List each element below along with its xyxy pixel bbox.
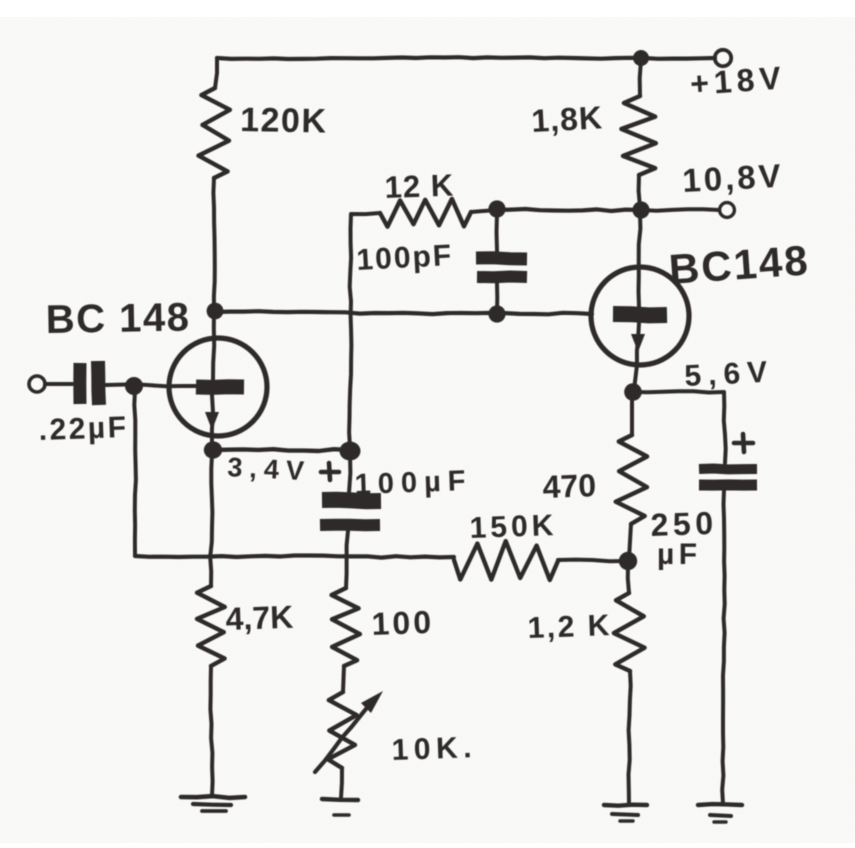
svg-text:12 K: 12 K [384, 168, 455, 205]
node Q1 collector / base-line junction [207, 303, 224, 320]
resistor R7 1.2K [614, 593, 645, 671]
node Q2 emitter (5.6V) [624, 383, 642, 401]
node 3.4V / 12K / 100uF junction [340, 442, 361, 461]
wire 120K to Q1 collector node [213, 178, 214, 311]
resistor R4 470 [616, 435, 647, 524]
resistor R2 4.7K [197, 586, 225, 666]
wire 100pF top stem [495, 213, 500, 251]
capacitor C4 100pF bottom plate [477, 271, 527, 284]
potentiometer VR1 wiper arrow [315, 691, 383, 772]
svg-text:1,8K: 1,8K [530, 99, 603, 139]
wire node to 1.2K [628, 564, 629, 593]
wire 3.4V node to 100uF [349, 453, 350, 493]
transistor Q1 collector lead [213, 311, 214, 380]
svg-text:3,4V: 3,4V [227, 452, 312, 486]
node 100pF / base-line junction [488, 305, 505, 322]
node Q1 emitter (3.4V) [204, 441, 222, 458]
wire 12K left stem [349, 213, 380, 447]
label BC148 (Q2) [667, 236, 811, 293]
wire input terminal to C1 [45, 382, 72, 386]
svg-text:5,6V: 5,6V [684, 355, 775, 393]
ground G3 [604, 805, 647, 821]
wire feedback vertical from input node [134, 390, 136, 555]
ground G4 [698, 804, 742, 822]
resistor R3 1.8K [621, 96, 656, 175]
svg-text:470: 470 [542, 467, 597, 505]
label 100pF [356, 239, 454, 277]
label 1,2K [527, 609, 612, 645]
node top-rail / 1.8K junction [633, 50, 649, 66]
wire 150K to 1.2K node [558, 560, 627, 562]
svg-text:100pF: 100pF [356, 239, 454, 277]
ground G2 [322, 799, 358, 815]
svg-text:100: 100 [371, 604, 435, 642]
wire 1.2K to ground [629, 671, 631, 804]
resistor R6 150K [454, 541, 558, 580]
resistor R5 12K [380, 199, 471, 227]
transistor Q2 emitter arrow [631, 334, 645, 352]
label 4,7K [225, 599, 294, 637]
transistor Q1 emitter lead [212, 395, 213, 448]
wire 10.8V node to terminal [641, 209, 719, 211]
node 470/150K/1.2K junction [619, 552, 637, 570]
label 150K [469, 509, 558, 545]
ground G1 [181, 796, 245, 811]
terminal 10.8V [720, 203, 735, 218]
label 1,8K [530, 99, 603, 139]
label BC 148 (Q1) [45, 295, 190, 342]
node input/feedback junction [125, 377, 143, 395]
node 12K/100pF junction [488, 200, 505, 217]
capacitor C1 .22uF right plate [98, 361, 99, 405]
wire pot to ground [341, 768, 342, 798]
svg-text:1,2 K: 1,2 K [527, 609, 612, 645]
transistor Q2 collector lead [639, 213, 641, 307]
wire 5.6V node to 470 [630, 396, 634, 435]
resistor R8 100 [332, 588, 360, 666]
transistor Q2 base bar [613, 314, 667, 315]
capacitor C2 100uF top plate [322, 500, 381, 501]
svg-text:BC148: BC148 [667, 236, 811, 293]
wire 250uF to ground [722, 490, 725, 804]
wire C1 to Q1 base [106, 384, 196, 386]
wire 12K to node [471, 210, 496, 212]
wire 100uF to 100 resistor [346, 531, 348, 588]
svg-text:.22µF: .22µF [38, 411, 129, 447]
capacitor C3 250uF bottom plate [699, 479, 757, 490]
transistor Q2 emitter lead [634, 323, 639, 390]
wire 12K node to 10.8V node [497, 209, 640, 211]
capacitor C4 100pF top plate [476, 258, 527, 259]
wire 5.6V node to 250uF [633, 391, 726, 463]
wire top +18V rail [217, 57, 715, 59]
svg-text:150K: 150K [469, 509, 558, 545]
transistor Q1 circle [169, 338, 267, 436]
label 100uF [354, 465, 473, 501]
label 250 [650, 505, 718, 543]
transistor Q1 emitter arrow [205, 412, 219, 430]
capacitor C3 250uF top plate [699, 464, 757, 475]
label + (100uF) [321, 463, 339, 480]
terminal +18V [715, 50, 731, 66]
wire 100 to pot [343, 666, 344, 692]
terminal input [29, 376, 45, 392]
svg-text:4,7K: 4,7K [225, 599, 294, 637]
label 120K [240, 101, 328, 141]
svg-text:10K.: 10K. [391, 731, 477, 767]
label .22uF [38, 411, 129, 447]
resistor R1 120K [199, 88, 230, 178]
label 10K. [391, 731, 477, 767]
svg-text:120K: 120K [240, 101, 328, 141]
wire Q1 emitter to 100uF branch [213, 449, 349, 451]
node 10.8V junction [632, 201, 649, 218]
label 12K [384, 168, 455, 205]
label 5,6V [684, 355, 775, 393]
potentiometer VR1 10K [328, 692, 357, 768]
capacitor C3 250uF plus sign [734, 434, 753, 452]
label uF (250uF) [657, 538, 702, 571]
capacitor C1 .22uF left plate [73, 363, 86, 404]
label 10,8V [681, 157, 784, 199]
transistor Q1 base bar [196, 379, 244, 395]
wire Q1-collector node to Q2 base [215, 311, 592, 314]
svg-text:µF: µF [657, 538, 702, 571]
wire 4.7K to ground [210, 666, 212, 796]
wire 1.8K to 10.8V node [639, 175, 640, 207]
wire top node to 1.8K [640, 60, 641, 96]
svg-text:10,8V: 10,8V [681, 157, 784, 199]
wire top rail to 120K [215, 58, 217, 88]
capacitor C2 100uF bottom plate [320, 519, 380, 532]
svg-text:+18V: +18V [689, 59, 787, 102]
label 3,4V [227, 452, 312, 486]
label +18V [689, 59, 787, 102]
label 100 [371, 604, 435, 642]
label 470 [542, 467, 597, 505]
transistor Q2 circle [591, 267, 689, 365]
wire feedback horizontal to 150K [135, 556, 454, 558]
wire Q1 emitter down [210, 454, 212, 586]
wire 470 to node [629, 524, 631, 559]
wire 100pF bottom stem [495, 283, 499, 313]
svg-text:BC 148: BC 148 [45, 295, 190, 342]
